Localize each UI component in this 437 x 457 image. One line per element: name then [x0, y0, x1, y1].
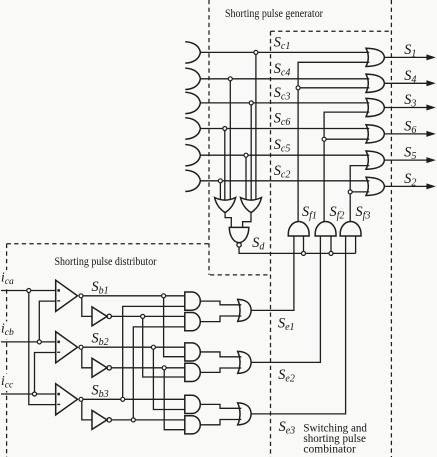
svg-text:combinator: combinator	[303, 442, 356, 456]
dashed border: shorting pulse generator box left	[208, 0, 210, 275]
CMP3 plus mark	[57, 393, 60, 396]
INV3 bubble	[107, 418, 111, 422]
wire S_c4 drop to 3-input OR	[229, 79, 231, 200]
wire INV1 output line	[111, 315, 184, 317]
junction dot on i_cc	[33, 392, 37, 396]
wire S_b3 line	[81, 398, 185, 400]
arrowhead S6	[426, 131, 435, 137]
junction dot on S_c6 line	[223, 127, 227, 131]
wire OR2 lower jog from AND output	[200, 368, 241, 372]
wire S4 output	[384, 82, 426, 84]
OR-gate fragment (input arc) for S_c4	[185, 68, 200, 89]
wire S_b1 down to G2A1 lower input	[164, 296, 185, 357]
wire OR2 upper jog from AND output	[200, 352, 241, 357]
junction dot on S_b1 line	[162, 294, 166, 298]
wire S_c6 horizontal line	[200, 128, 369, 130]
wire S_e2 line	[251, 236, 320, 363]
wire S_c6 drop to 3-input OR	[224, 129, 226, 200]
wire OR1 lower jog from AND output	[200, 316, 241, 322]
OR gate for S3 (2-input)	[366, 98, 384, 116]
dashed border: combinator box right	[390, 0, 392, 457]
label background masks	[0, 270, 16, 288]
OR gate for S2 (2-input)	[366, 177, 384, 195]
svg-text:Shorting pulse distributor: Shorting pulse distributor	[55, 256, 157, 268]
wire S_b2 line	[81, 346, 185, 348]
OR gate OR2 (2-input)	[238, 351, 252, 373]
wire i_ca to CMP3 - input	[29, 291, 56, 405]
comparator CMP2	[56, 332, 78, 363]
junction dot on S_c2 line	[218, 179, 222, 183]
wire S_d from NAND bubble	[239, 247, 356, 253]
OR-gate fragment (input arc) for S_c1	[185, 42, 200, 63]
INV2 bubble	[107, 366, 111, 370]
OR gate for S1 (2-input)	[366, 48, 384, 66]
inverter INV2	[92, 358, 107, 377]
wire S_f1 output up to S1 input	[298, 62, 369, 221]
OR gate OR1 (2-input)	[238, 299, 252, 321]
wire S_c2 horizontal line	[200, 180, 369, 182]
junction CMP2 output node	[79, 345, 83, 349]
dashed border: distributor box left	[6, 244, 8, 457]
wire S_b1 line	[81, 295, 185, 297]
wire S6 output	[384, 133, 426, 135]
wire OR1 upper jog from AND output	[200, 301, 241, 305]
junction dot on INV1 output line	[141, 314, 145, 318]
AND gate G1A2	[185, 313, 201, 331]
NAND gate U_d (downward AND with bubble)	[229, 227, 249, 242]
junction CMP3 output node	[79, 397, 83, 401]
wire S1 output	[384, 56, 426, 58]
wire i_cc line	[1, 393, 56, 395]
junction dot on INV2 output line	[162, 366, 166, 370]
dashed border: distributor box top	[7, 243, 209, 245]
wire S_f1 right leg to S_d	[303, 236, 305, 253]
junction dot on INV3 output line	[131, 418, 135, 422]
CMP1 plus mark	[57, 289, 60, 292]
AND gate G3A2	[185, 416, 201, 434]
INV1 bubble	[107, 314, 111, 318]
junction dot S_f3 branch	[348, 190, 352, 194]
arrowhead S1	[426, 54, 435, 60]
OR gate for S6 (2-input)	[366, 125, 384, 143]
OR gate U_a (3-input OR, left)	[215, 198, 236, 213]
junction dot S_f2 branch	[322, 137, 326, 141]
dashed border: combinator box top	[271, 30, 392, 32]
inverter INV1	[92, 307, 107, 326]
AND gate S_f3 (upward)	[340, 221, 361, 236]
arrowhead S3	[426, 105, 435, 111]
junction CMP1 output node	[79, 294, 83, 298]
wire S_c5 horizontal line	[200, 154, 369, 156]
dashed border: shorting pulse generator box bottom	[210, 274, 271, 276]
AND gate G1A1	[185, 292, 201, 310]
wire S_b3 up to G1A1 lower input	[123, 306, 185, 399]
AND gate G3A1	[185, 395, 201, 413]
wire S_f3 output up to S5 input	[350, 166, 369, 222]
arrowhead S5	[426, 157, 435, 163]
wire OR3 upper jog from AND output	[200, 404, 241, 408]
wire S_f3 right leg to S_d	[355, 236, 357, 253]
wire S_e1 line	[251, 236, 294, 311]
wire U_a output to NAND input	[225, 213, 231, 228]
junction dot S_f1 branch	[296, 86, 300, 90]
CMP2 minus mark	[57, 352, 60, 353]
comparator CMP1	[56, 280, 78, 311]
junction dot on S_b2 line	[151, 345, 155, 349]
CMP1 minus mark	[57, 300, 60, 301]
wire CMP1 output to inverter INV1	[82, 298, 92, 317]
OR gate for S5 (2-input)	[366, 151, 384, 169]
dashed border: combinator box left	[270, 31, 272, 457]
OR gate for S4 (2-input)	[366, 74, 384, 92]
wire CMP3 output to inverter INV3	[82, 401, 92, 420]
junction dot S_d to S_f1	[302, 251, 306, 255]
wire S_b2 down to G3A1 lower input	[153, 347, 184, 409]
OR-gate fragment (input arc) for S_c5	[185, 145, 200, 166]
junction dot on S_c3 line	[249, 101, 253, 105]
wire S_c1 drop to 3-input OR	[255, 52, 257, 199]
OR-gate fragment (input arc) for S_c2	[185, 170, 200, 191]
AND gate G2A2	[185, 363, 201, 381]
svg-text:Shorting pulse generator: Shorting pulse generator	[225, 8, 323, 20]
wire S_f2 output up to S3 input	[324, 112, 369, 221]
CMP2 plus mark	[57, 341, 60, 344]
wire S_f3 branch to S2 input	[350, 191, 369, 193]
wire INV3 up to G1A2 lower input	[133, 327, 185, 420]
wire S_c4 horizontal line	[200, 78, 369, 80]
wire S5 output	[384, 159, 426, 161]
wire S_f2 branch to S6 input	[324, 138, 369, 140]
AND gate S_f2 (upward)	[315, 221, 336, 236]
wire S_c2 drop to 3-input OR	[219, 181, 221, 200]
arrowhead S2	[426, 183, 435, 189]
AND gate G2A1	[185, 343, 200, 361]
wire OR3 lower jog from AND output	[200, 420, 241, 425]
wire INV2 output line	[111, 367, 184, 369]
OR-gate fragment (input arc) for S_c3	[185, 92, 200, 113]
wire INV3 output line	[111, 419, 184, 421]
OR gate U_b (3-input OR, right)	[241, 198, 262, 213]
wire INV1 down to G2A2 lower input	[143, 316, 185, 377]
junction dot on S_c1 line	[254, 50, 258, 54]
wire S_e3 line	[251, 236, 345, 414]
CMP3 minus mark	[57, 404, 60, 405]
arrowhead S4	[426, 80, 435, 86]
AND gate S_f1 (upward)	[288, 222, 309, 237]
OR-gate fragment (input arc) for S_c6	[185, 118, 200, 139]
wire S_c3 horizontal line	[200, 102, 369, 104]
wire i_cb line	[1, 341, 56, 343]
wire U_b output to NAND input	[243, 213, 251, 228]
wire i_ca line	[1, 290, 56, 292]
NAND output bubble	[237, 243, 241, 247]
junction dot S_d to S_f2	[329, 251, 333, 255]
OR gate OR3 (2-input)	[238, 403, 252, 425]
wire S_f1 branch to S4 input	[298, 87, 369, 89]
junction dot on S_b3 line	[121, 397, 125, 401]
wire CMP2 output to inverter INV2	[82, 349, 92, 368]
junction dot on S_c5 line	[244, 153, 248, 157]
junction dot on S_c4 line	[228, 77, 232, 81]
wire S3 output	[384, 107, 426, 109]
wire S_c1 horizontal line	[200, 51, 369, 53]
wire i_cb to CMP1 - input	[39, 301, 55, 342]
junction dot on i_cb	[37, 340, 41, 344]
wire i_cc to CMP2 - input	[35, 353, 56, 395]
wire INV2 down to G3A2 lower input	[164, 368, 185, 430]
junction dot on i_ca	[27, 289, 31, 293]
wire S_f2 right leg to S_d	[330, 236, 332, 253]
wire S2 output	[384, 185, 426, 187]
wire S_c3 drop to 3-input OR	[250, 103, 252, 200]
comparator CMP3	[56, 384, 78, 415]
wire S_c5 drop to 3-input OR	[245, 155, 247, 199]
inverter INV3	[92, 410, 107, 429]
